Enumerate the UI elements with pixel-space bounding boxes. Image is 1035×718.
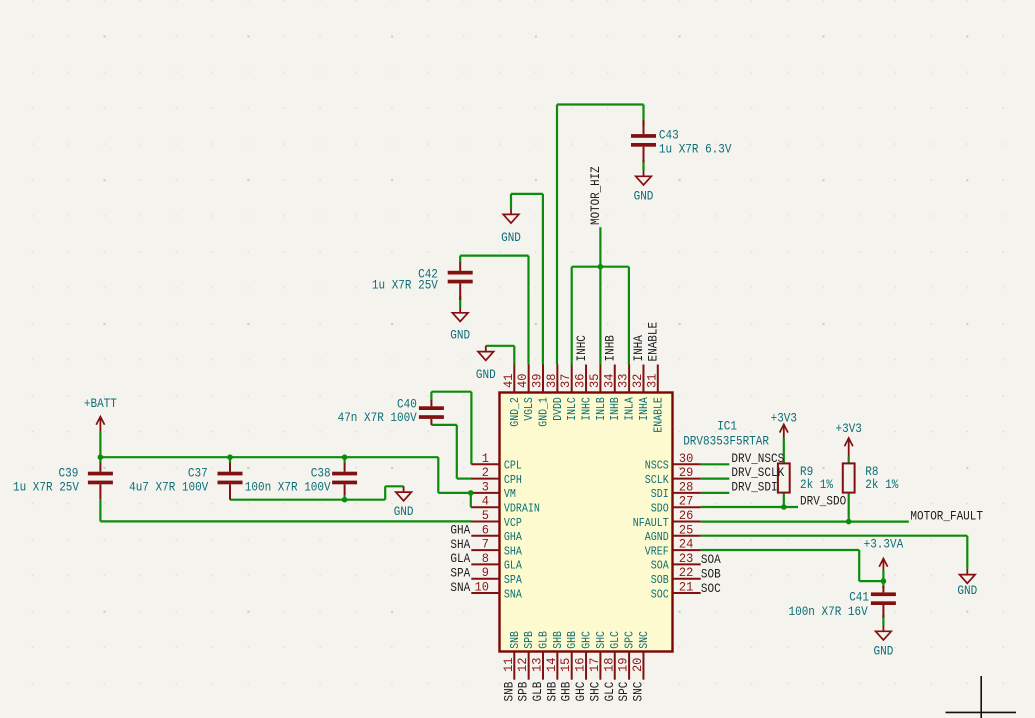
- IC pin 37 INLC: [571, 365, 573, 393]
- IC pin 33 INLA: [628, 365, 630, 393]
- svg-text:SDI: SDI: [651, 487, 669, 501]
- wire C43 bottom to GND: [642, 160, 644, 171]
- svg-text:30: 30: [679, 451, 693, 466]
- junction R8/MOTOR_FAULT: [846, 519, 852, 525]
- svg-text:6: 6: [482, 522, 489, 537]
- wire C37 top stub: [229, 457, 231, 463]
- svg-text:C37: C37: [188, 466, 208, 481]
- svg-text:SNB: SNB: [501, 682, 516, 702]
- svg-text:14: 14: [544, 657, 559, 672]
- svg-text:2: 2: [482, 465, 489, 480]
- wire GND_2 vertical to pin 41: [513, 346, 515, 365]
- IC pin 7 SHA: [471, 549, 499, 551]
- wire +3.3VA stub: [882, 570, 884, 581]
- svg-text:10: 10: [475, 580, 489, 595]
- wire GND_2 horizontal: [486, 345, 515, 347]
- svg-text:VCP: VCP: [504, 516, 522, 530]
- wire C42 top stub: [459, 256, 461, 263]
- svg-text:34: 34: [601, 373, 616, 388]
- IC pin 31 ENABLE: [657, 365, 659, 393]
- svg-text:SOC: SOC: [651, 587, 669, 601]
- svg-text:4: 4: [482, 494, 489, 509]
- svg-text:5: 5: [482, 508, 489, 523]
- svg-text:SPC: SPC: [616, 682, 631, 702]
- svg-text:SHA: SHA: [504, 544, 523, 558]
- power +BATT: [99, 418, 101, 432]
- svg-text:33: 33: [616, 374, 631, 388]
- IC pin 9 SPA: [471, 578, 499, 580]
- svg-text:GND_1: GND_1: [537, 397, 551, 427]
- wire gnd rail to GND: [385, 485, 403, 487]
- svg-text:SPA: SPA: [450, 566, 470, 581]
- svg-text:28: 28: [679, 479, 693, 494]
- svg-text:SNC: SNC: [637, 631, 651, 649]
- svg-text:INHC: INHC: [574, 335, 589, 362]
- svg-text:SNA: SNA: [450, 580, 470, 595]
- IC pin 35 INLB: [599, 365, 601, 393]
- svg-text:GND: GND: [957, 583, 977, 598]
- IC pin 30 NSCS: [673, 463, 701, 465]
- svg-text:C38: C38: [311, 466, 331, 481]
- svg-text:24: 24: [679, 537, 694, 552]
- svg-text:1u X7R 6.3V: 1u X7R 6.3V: [659, 141, 732, 156]
- wire C42 vertical to pin 40: [527, 256, 529, 365]
- wire VM rail corner down: [437, 457, 439, 493]
- svg-text:SHB: SHB: [551, 631, 565, 649]
- svg-text:29: 29: [679, 465, 693, 480]
- svg-text:DRV_NSCS: DRV_NSCS: [731, 451, 784, 466]
- svg-text:ENABLE: ENABLE: [646, 322, 661, 362]
- svg-text:IC1: IC1: [717, 419, 737, 434]
- svg-text:1u X7R 25V: 1u X7R 25V: [372, 278, 438, 293]
- svg-text:36: 36: [573, 374, 588, 388]
- wire VM rail to pin 3: [438, 492, 471, 494]
- svg-text:GHC: GHC: [573, 682, 588, 702]
- ground (C43): [643, 171, 645, 177]
- wire C38 top stub: [344, 457, 346, 463]
- svg-text:2k 1%: 2k 1%: [800, 477, 833, 492]
- svg-text:SDO: SDO: [651, 502, 669, 516]
- svg-text:GND: GND: [874, 643, 894, 658]
- IC pin 13 GLB: [542, 652, 544, 680]
- wire DVDD horizontal top: [557, 103, 644, 105]
- capacitor C43: [631, 134, 656, 138]
- IC pin 34 INHB: [614, 365, 616, 393]
- svg-text:38: 38: [544, 374, 559, 388]
- wire R8 bottom: [848, 493, 850, 522]
- svg-text:8: 8: [482, 551, 489, 566]
- IC pin 38 DVDD: [556, 365, 558, 393]
- wire DRV_SCLK from pin 29: [701, 478, 730, 480]
- svg-text:NFAULT: NFAULT: [633, 516, 669, 530]
- wire VREF corner down: [858, 550, 860, 581]
- junction C38 top: [342, 454, 348, 460]
- wire GND_1 vertical to pin 39: [542, 194, 544, 365]
- svg-text:47n X7R 100V: 47n X7R 100V: [338, 410, 417, 425]
- svg-text:GHC: GHC: [580, 631, 594, 649]
- wire INLC vertical to pin 37: [571, 267, 573, 365]
- IC pin 27 SDO: [673, 506, 701, 508]
- svg-text:MOTOR_HIZ: MOTOR_HIZ: [588, 166, 603, 225]
- svg-text:+3V3: +3V3: [836, 421, 862, 436]
- IC pin 21 SOC: [673, 592, 701, 594]
- svg-text:INHB: INHB: [603, 335, 618, 362]
- ground (AGND): [966, 569, 968, 575]
- IC pin 22 SOB: [673, 578, 701, 580]
- svg-text:INHB: INHB: [608, 397, 622, 421]
- svg-text:27: 27: [679, 494, 693, 509]
- IC pin 3 VM: [471, 492, 499, 494]
- wire R8 top: [848, 457, 850, 464]
- wire C42 bottom to GND: [459, 296, 461, 307]
- svg-text:+3V3: +3V3: [771, 410, 797, 425]
- svg-text:SPB: SPB: [522, 631, 536, 649]
- svg-text:20: 20: [630, 658, 645, 672]
- ground (C41): [882, 626, 884, 632]
- IC pin 39 GND_1: [542, 365, 544, 393]
- svg-text:SOA: SOA: [651, 559, 670, 573]
- IC pin 14 SHB: [556, 652, 558, 680]
- IC pin 40 VGLS: [528, 365, 530, 393]
- IC pin 15 GHB: [571, 652, 573, 680]
- svg-text:INHA: INHA: [631, 335, 646, 362]
- svg-text:SOB: SOB: [701, 567, 721, 582]
- IC pin 10 SNA: [471, 592, 499, 594]
- svg-text:CPL: CPL: [504, 459, 522, 473]
- svg-text:SHC: SHC: [587, 682, 602, 702]
- capacitor C38: [332, 472, 357, 476]
- wire VM to VDRAIN: [470, 493, 472, 507]
- IC pin 28 SDI: [673, 492, 701, 494]
- power +3V3 (R9): [783, 425, 785, 438]
- power +3V3 (R8): [848, 439, 850, 457]
- svg-text:GLA: GLA: [450, 551, 470, 566]
- svg-text:SPA: SPA: [504, 573, 523, 587]
- sheet corner crosshair: [980, 676, 982, 718]
- wire C41 top stub: [882, 581, 884, 588]
- IC pin 12 SPB: [528, 652, 530, 680]
- wire AGND corner down: [966, 536, 968, 569]
- wire AGND from pin 25: [701, 535, 968, 537]
- IC pin 25 AGND: [673, 535, 701, 537]
- svg-text:21: 21: [679, 580, 694, 595]
- IC pin 16 GHC: [585, 652, 587, 680]
- svg-text:SNC: SNC: [630, 682, 645, 702]
- svg-text:7: 7: [482, 537, 489, 552]
- wire CPL vertical to pin 1: [470, 392, 472, 465]
- svg-text:31: 31: [644, 373, 659, 388]
- svg-text:18: 18: [601, 658, 616, 672]
- junction +BATT/C39: [98, 454, 104, 460]
- svg-text:INLB: INLB: [594, 397, 608, 421]
- svg-text:INLA: INLA: [623, 397, 637, 421]
- capacitor C40: [419, 406, 444, 410]
- wire DRV_SDO from pin 27: [701, 506, 798, 508]
- IC pin 19 SPC: [628, 652, 630, 680]
- svg-text:DVDD: DVDD: [551, 397, 565, 421]
- svg-text:37: 37: [558, 374, 573, 388]
- wire DRV_NSCS from pin 30: [701, 463, 730, 465]
- wire gnd rail jog up: [384, 486, 386, 499]
- junction MOTOR_HIZ: [598, 264, 604, 270]
- svg-text:SPB: SPB: [516, 682, 531, 702]
- IC pin 36 INHC: [585, 365, 587, 393]
- svg-text:32: 32: [630, 374, 645, 388]
- svg-text:SCLK: SCLK: [645, 473, 670, 487]
- svg-text:GND: GND: [476, 367, 496, 382]
- svg-text:1u X7R 25V: 1u X7R 25V: [13, 479, 79, 494]
- power +3.3VA: [882, 560, 884, 571]
- wire GND_1 up from symbol: [510, 194, 512, 209]
- svg-text:GHA: GHA: [504, 530, 523, 544]
- wire C41 bottom to GND: [882, 615, 884, 626]
- wire VCP long horizontal: [100, 520, 471, 522]
- svg-text:GHA: GHA: [450, 523, 470, 538]
- svg-text:DRV_SDI: DRV_SDI: [731, 480, 777, 495]
- wire C40 top horizontal: [431, 391, 471, 393]
- svg-text:GND: GND: [394, 504, 414, 519]
- wire C39 top stub: [99, 457, 101, 463]
- svg-text:GLB: GLB: [530, 682, 545, 702]
- svg-text:12: 12: [515, 658, 530, 672]
- IC pin 5 VCP: [471, 521, 499, 523]
- wire R9 bottom: [783, 493, 785, 507]
- svg-text:11: 11: [501, 657, 516, 672]
- IC pin 1 CPL: [471, 463, 499, 465]
- wire C43 top stub: [642, 105, 644, 127]
- IC pin 23 SOA: [673, 563, 701, 565]
- junction +3.3VA/C41: [881, 578, 887, 584]
- svg-text:AGND: AGND: [645, 530, 669, 544]
- svg-text:+3.3VA: +3.3VA: [864, 536, 904, 551]
- svg-text:SOC: SOC: [701, 581, 721, 596]
- svg-text:25: 25: [679, 522, 693, 537]
- svg-text:SOB: SOB: [651, 573, 669, 587]
- svg-text:100n X7R 100V: 100n X7R 100V: [245, 479, 331, 494]
- IC pin 32 INHA: [642, 365, 644, 393]
- svg-text:ENABLE: ENABLE: [651, 397, 665, 432]
- svg-text:GND: GND: [501, 230, 521, 245]
- svg-text:22: 22: [679, 565, 693, 580]
- svg-text:17: 17: [587, 658, 602, 672]
- wire CPH to pin 2: [457, 478, 472, 480]
- svg-text:GND_2: GND_2: [508, 397, 522, 427]
- svg-text:DRV_SDO: DRV_SDO: [800, 493, 846, 508]
- svg-text:35: 35: [587, 374, 602, 388]
- svg-text:VGLS: VGLS: [522, 397, 536, 421]
- wire VREF to +3.3VA junction: [859, 580, 883, 582]
- svg-text:2k 1%: 2k 1%: [865, 477, 898, 492]
- svg-text:DRV8353F5RTAR: DRV8353F5RTAR: [683, 434, 769, 449]
- svg-text:4u7 X7R 100V: 4u7 X7R 100V: [129, 479, 208, 494]
- svg-text:VM: VM: [504, 487, 516, 501]
- wire DRV_SDI from pin 28: [701, 492, 730, 494]
- svg-text:VDRAIN: VDRAIN: [504, 502, 540, 516]
- wire C40 bottom horizontal: [431, 424, 456, 426]
- wire MOTOR_HIZ horizontal: [572, 266, 629, 268]
- svg-text:SNB: SNB: [508, 631, 522, 649]
- wire C39 bottom drop: [99, 499, 101, 521]
- wire INLB vertical to pin 35: [599, 267, 601, 365]
- wire C38 bottom stub: [344, 495, 346, 500]
- wire VM rail horizontal: [100, 456, 438, 458]
- capacitor C42: [448, 271, 473, 275]
- svg-text:DRV_SCLK: DRV_SCLK: [731, 465, 784, 480]
- IC pin 24 VREF: [673, 549, 701, 551]
- IC pin 18 GLC: [614, 652, 616, 680]
- wire C37 bottom gnd rail: [230, 499, 385, 501]
- svg-text:1: 1: [482, 451, 489, 466]
- capacitor C37: [218, 472, 243, 476]
- svg-text:GLB: GLB: [537, 631, 551, 649]
- wire INLA vertical to pin 33: [628, 267, 630, 365]
- svg-text:16: 16: [573, 658, 588, 672]
- svg-text:SOA: SOA: [701, 552, 721, 567]
- wire VREF from pin 24: [701, 549, 860, 551]
- wire MOTOR_FAULT from pin 26: [701, 520, 909, 522]
- svg-text:SPC: SPC: [623, 631, 637, 649]
- svg-text:GHB: GHB: [559, 682, 574, 702]
- IC pin 41 GND_2: [513, 365, 515, 393]
- svg-text:INHA: INHA: [637, 397, 651, 421]
- IC pin 4 VDRAIN: [471, 506, 499, 508]
- IC pin 29 SCLK: [673, 478, 701, 480]
- svg-text:SHA: SHA: [450, 537, 470, 552]
- svg-text:MOTOR_FAULT: MOTOR_FAULT: [910, 508, 983, 523]
- svg-text:NSCS: NSCS: [645, 459, 669, 473]
- IC pin 17 SHC: [599, 652, 601, 680]
- wire VDRAIN to pin 4: [470, 506, 473, 508]
- wire DVDD vertical to pin 38: [556, 105, 558, 365]
- svg-text:100n X7R 16V: 100n X7R 16V: [789, 604, 868, 619]
- IC pin 26 NFAULT: [673, 521, 701, 523]
- IC pin 20 SNC: [642, 652, 644, 680]
- wire +BATT drop to rail: [99, 431, 101, 457]
- wire MOTOR_HIZ drop: [599, 227, 601, 267]
- junction VM pin 3: [468, 490, 474, 496]
- svg-text:39: 39: [530, 374, 545, 388]
- resistor R9: [778, 463, 790, 492]
- IC pin 2 CPH: [471, 478, 499, 480]
- wire C40 top corner: [430, 392, 432, 401]
- svg-text:CPH: CPH: [504, 473, 522, 487]
- svg-text:C41: C41: [849, 590, 869, 605]
- svg-text:23: 23: [679, 551, 693, 566]
- junction R9/DRV_SDO: [781, 504, 787, 510]
- junction C37 top: [227, 454, 233, 460]
- svg-text:13: 13: [530, 658, 545, 672]
- svg-text:26: 26: [679, 508, 693, 523]
- svg-text:INLC: INLC: [565, 397, 579, 421]
- svg-text:GND: GND: [450, 328, 470, 343]
- IC pin 11 SNB: [513, 652, 515, 680]
- resistor R8: [843, 463, 855, 492]
- IC pin 6 GHA: [471, 535, 499, 537]
- ground (GND_2 pin 41): [485, 346, 487, 352]
- svg-text:+BATT: +BATT: [84, 396, 117, 411]
- wire CPH vertical: [456, 425, 458, 479]
- capacitor C39: [88, 472, 113, 476]
- svg-text:15: 15: [558, 658, 573, 672]
- svg-text:GND: GND: [634, 188, 654, 203]
- svg-text:GHB: GHB: [565, 631, 579, 649]
- svg-text:INHC: INHC: [580, 397, 594, 421]
- junction C38 bottom: [342, 497, 348, 503]
- svg-text:41: 41: [501, 373, 516, 388]
- IC pin 8 GLA: [471, 563, 499, 565]
- ground (C42): [459, 307, 461, 313]
- svg-text:3: 3: [482, 479, 489, 494]
- capacitor C41: [871, 592, 896, 596]
- svg-text:GLC: GLC: [602, 682, 617, 702]
- svg-text:SHB: SHB: [544, 682, 559, 702]
- svg-text:VREF: VREF: [645, 544, 669, 558]
- svg-text:SNA: SNA: [504, 587, 523, 601]
- wire R9 top: [783, 438, 785, 463]
- wire C42 horizontal: [460, 255, 528, 257]
- svg-text:C39: C39: [59, 466, 79, 481]
- svg-text:SHC: SHC: [594, 631, 608, 649]
- ground (GND_1 pin 39): [510, 209, 512, 215]
- wire GND_1 horizontal: [511, 193, 543, 195]
- svg-text:C43: C43: [659, 128, 679, 143]
- IC IC1 body: [500, 393, 673, 652]
- svg-text:19: 19: [616, 658, 631, 672]
- svg-text:9: 9: [482, 565, 489, 580]
- ground (C37/C38 rail): [403, 486, 405, 492]
- svg-text:GLC: GLC: [608, 631, 622, 649]
- svg-text:40: 40: [515, 374, 530, 388]
- svg-text:GLA: GLA: [504, 559, 523, 573]
